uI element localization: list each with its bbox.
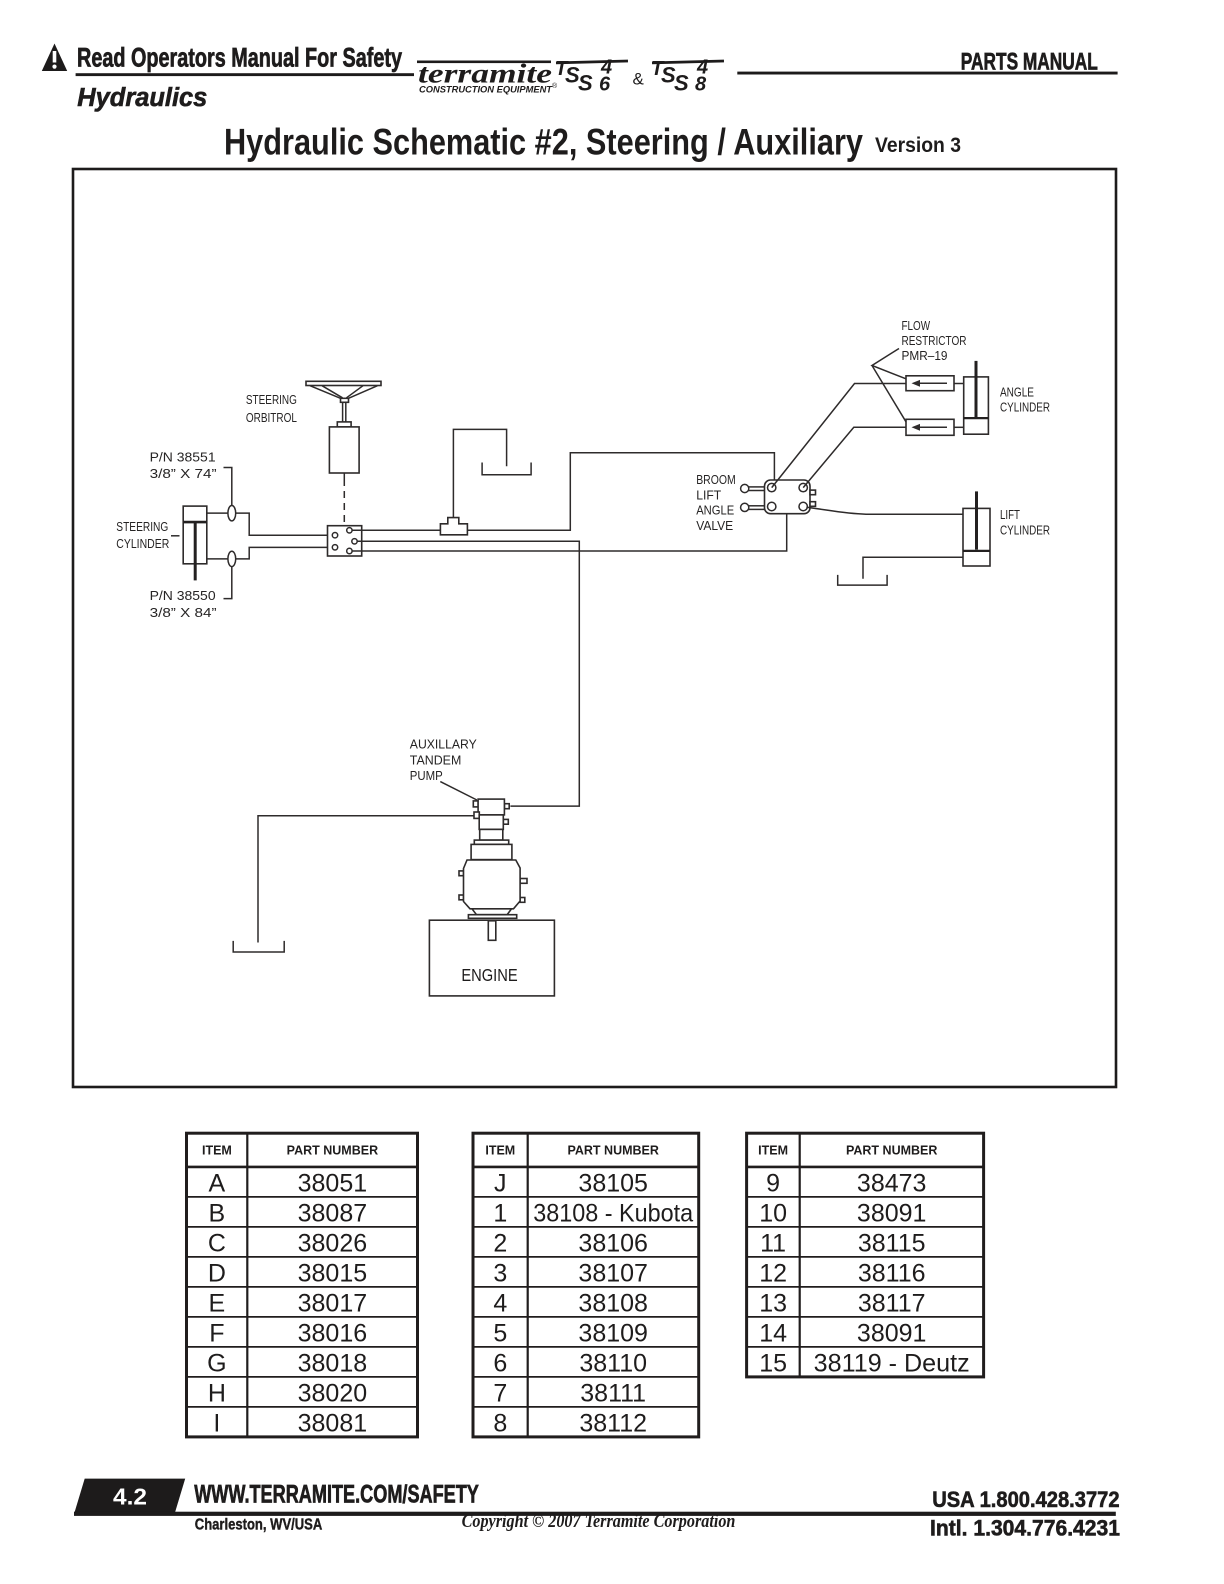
header underline left segment [76,73,414,76]
svg-text:13: 13 [759,1289,787,1317]
header block [42,42,1118,112]
svg-text:STEERING: STEERING [116,520,168,534]
wire: restrictor stubs to angle cylinder [954,384,964,428]
svg-text:CYLINDER: CYLINDER [1000,523,1050,537]
svg-text:38116: 38116 [858,1259,926,1287]
svg-text:PUMP: PUMP [410,769,443,783]
footer thick rule [74,1512,1116,1516]
svg-text:6: 6 [493,1349,507,1377]
svg-text:8: 8 [493,1409,507,1437]
wire: valve to flow restrictor 2 [803,427,906,487]
svg-text:TANDEM: TANDEM [410,753,462,767]
wire: valve to lift cylinder [806,507,963,514]
svg-text:ITEM: ITEM [758,1144,788,1158]
svg-text:CONSTRUCTION EQUIPMENT: CONSTRUCTION EQUIPMENT [419,85,553,96]
broom lift angle valve V1 [741,480,816,514]
svg-text:ORBITROL: ORBITROL [246,411,297,425]
table 1 data [207,1169,367,1437]
wire: orbitrol to pump pressure line [357,541,579,806]
svg-text:D: D [208,1259,226,1287]
parts tables [187,1133,984,1437]
steering wheel [306,381,381,422]
svg-text:14: 14 [759,1319,787,1347]
page title [224,121,961,163]
label: BROOM LIFT ANGLE VALVE [696,473,736,533]
table 3 grid [747,1133,984,1377]
warning triangle icon [42,44,67,72]
dashed drive link wire [343,479,345,526]
terramite logo crossbar [417,61,551,64]
svg-text:LIFT: LIFT [696,488,721,502]
svg-text:10: 10 [759,1199,787,1227]
wire: orbitrol return to valve bottom [352,514,787,551]
svg-text:Copyright © 2007 Terramite Cor: Copyright © 2007 Terramite Corporation [462,1511,736,1532]
svg-text:B: B [209,1199,226,1227]
svg-text:P/N 38550: P/N 38550 [150,589,216,603]
svg-text:3: 3 [493,1259,507,1287]
svg-text:5: 5 [493,1319,507,1347]
label: FLOW RESTRICTOR PMR-19 with leader [872,319,967,422]
svg-text:38081: 38081 [298,1409,368,1437]
orbitrol port block [328,526,362,556]
svg-text:11: 11 [760,1229,786,1257]
svg-text:WWW.TERRAMITE.COM/SAFETY: WWW.TERRAMITE.COM/SAFETY [194,1481,479,1509]
svg-text:BROOM: BROOM [696,473,736,487]
footer [74,1479,1120,1541]
wire: orbitrol to valve top (pressure line) [352,453,774,531]
svg-text:9: 9 [766,1169,780,1197]
svg-text:38091: 38091 [857,1199,927,1227]
table 2 data [493,1169,693,1437]
svg-text:Hydraulic Schematic #2, Steeri: Hydraulic Schematic #2, Steering / Auxil… [224,121,863,163]
svg-text:ANGLE: ANGLE [696,504,734,518]
lift cylinder [963,491,990,566]
svg-text:8: 8 [695,74,707,96]
svg-text:38111: 38111 [580,1379,646,1407]
svg-text:USA 1.800.428.3772: USA 1.800.428.3772 [932,1487,1119,1512]
svg-text:ITEM: ITEM [202,1144,232,1158]
label: P/N 38550 hose [150,567,232,620]
svg-text:4.2: 4.2 [113,1484,147,1510]
svg-text:2: 2 [493,1229,507,1257]
label: ANGLE CYLINDER [1000,386,1050,415]
hose marker ellipse P/N 38550 [228,551,236,566]
svg-text:S: S [674,71,689,96]
label: STEERING CYLINDER [116,520,179,551]
wire: steering cylinder bottom port to orbitrol block [207,547,333,559]
table 3 data [759,1169,970,1377]
svg-text:FLOW: FLOW [902,319,931,333]
hose marker ellipse P/N 38551 [228,506,236,521]
svg-text:E: E [209,1289,226,1317]
svg-text:ITEM: ITEM [485,1144,515,1158]
svg-text:38091: 38091 [857,1319,927,1347]
svg-text:Hydraulics: Hydraulics [77,84,207,112]
svg-text:J: J [494,1169,507,1197]
svg-text:A: A [209,1169,226,1197]
svg-text:ANGLE: ANGLE [1000,386,1034,400]
wire: pump suction to tank [258,816,474,943]
svg-text:4: 4 [493,1289,507,1317]
reservoir tank (right) [838,575,887,585]
svg-text:38112: 38112 [579,1409,647,1437]
svg-text:38115: 38115 [858,1229,926,1257]
svg-text:CYLINDER: CYLINDER [1000,401,1050,415]
svg-text:38106: 38106 [578,1229,648,1257]
svg-text:38018: 38018 [298,1349,368,1377]
TSS4/6 logo [555,57,628,96]
wire: tee to reservoir [453,429,506,517]
svg-text:Read Operators Manual For Safe: Read Operators Manual For Safety [77,42,402,72]
svg-text:1: 1 [493,1199,507,1227]
tee fitting [440,518,467,535]
table 2 grid [473,1133,699,1437]
svg-text:S: S [578,71,593,96]
svg-text:38109: 38109 [578,1319,648,1347]
svg-text:3/8” X 84”: 3/8” X 84” [150,606,217,620]
steering cylinder [183,506,207,580]
svg-text:P/N 38551: P/N 38551 [150,451,216,465]
TSS4/8 logo [651,57,724,96]
table 1 grid [187,1133,418,1437]
svg-text:38016: 38016 [298,1319,368,1347]
svg-text:®: ® [552,82,558,90]
svg-text:ENGINE: ENGINE [461,965,517,985]
svg-text:38020: 38020 [298,1379,368,1407]
svg-text:7: 7 [493,1379,507,1407]
svg-text:38051: 38051 [298,1169,368,1197]
label: AUXILLARY TANDEM PUMP with leader [410,737,478,800]
label: P/N 38551 hose [150,451,232,506]
svg-text:12: 12 [759,1259,787,1287]
svg-text:RESTRICTOR: RESTRICTOR [902,334,967,348]
svg-text:G: G [207,1349,226,1377]
svg-text:38105: 38105 [578,1169,648,1197]
flow restrictor PMR-19 (top) [906,376,954,391]
svg-text:PMR–19: PMR–19 [902,349,948,363]
wire: steering cylinder top port to orbitrol block [207,513,333,535]
svg-text:38110: 38110 [579,1349,647,1377]
steering orbitrol unit U1 [329,422,359,479]
svg-text:Charleston, WV/USA: Charleston, WV/USA [195,1517,322,1534]
label: STEERING ORBITROL [246,393,297,425]
svg-text:CYLINDER: CYLINDER [116,537,169,551]
svg-text:F: F [209,1319,224,1347]
svg-text:LIFT: LIFT [1000,508,1020,522]
svg-text:38108 - Kubota: 38108 - Kubota [533,1199,693,1227]
page number parallelogram [74,1479,185,1515]
angle cylinder [964,361,989,434]
svg-text:38107: 38107 [578,1259,648,1287]
svg-text:VALVE: VALVE [696,519,733,533]
label: LIFT CYLINDER [1000,508,1050,537]
svg-text:H: H [208,1379,226,1407]
svg-text:38026: 38026 [298,1229,368,1257]
svg-text:38119 - Deutz: 38119 - Deutz [814,1349,970,1377]
svg-text:PART NUMBER: PART NUMBER [567,1144,658,1158]
reservoir tank (left) [233,941,284,952]
svg-text:6: 6 [599,74,611,96]
header underline right segment [737,72,1117,75]
reservoir tank (center) [482,463,531,475]
svg-text:3/8” X 74”: 3/8” X 74” [150,467,217,481]
svg-text:38017: 38017 [298,1289,368,1317]
svg-text:PART NUMBER: PART NUMBER [287,1144,378,1158]
svg-text:38108: 38108 [578,1289,648,1317]
svg-text:AUXILLARY: AUXILLARY [410,737,478,751]
schematic border frame [73,169,1116,1087]
svg-text:C: C [208,1229,226,1257]
flow restrictor PMR-19 (bottom) [906,419,954,435]
auxiliary tandem pump P1 [459,799,527,918]
wire: valve to flow restrictor 1 [772,384,906,488]
svg-text:38015: 38015 [298,1259,368,1287]
svg-text:PART NUMBER: PART NUMBER [846,1144,937,1158]
svg-text:38473: 38473 [857,1169,927,1197]
svg-text:Version 3: Version 3 [875,134,961,157]
svg-text:STEERING: STEERING [246,393,297,407]
svg-text:15: 15 [759,1349,787,1377]
svg-text:38117: 38117 [858,1289,926,1317]
wire: lift cylinder return to tank [863,557,963,579]
svg-text:&: & [633,70,645,89]
svg-text:PARTS MANUAL: PARTS MANUAL [961,48,1098,75]
engine E1 [429,920,554,996]
svg-text:I: I [213,1409,220,1437]
svg-text:38087: 38087 [298,1199,368,1227]
svg-text:Intl. 1.304.776.4231: Intl. 1.304.776.4231 [930,1515,1120,1540]
